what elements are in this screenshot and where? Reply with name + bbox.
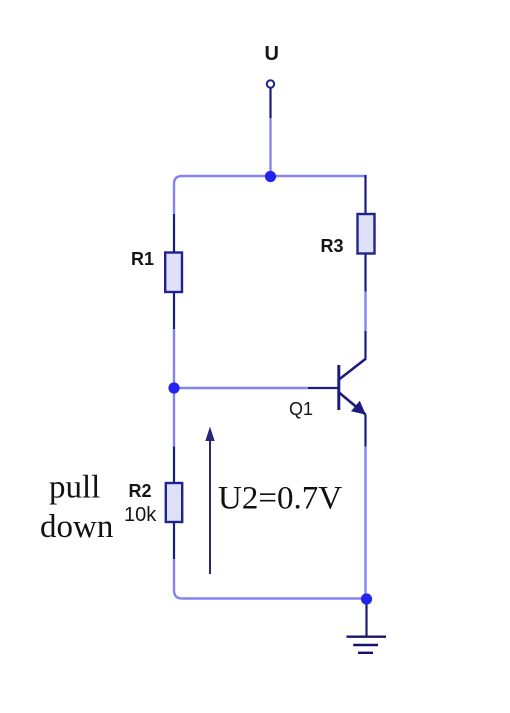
svg-text:down: down [40, 509, 113, 545]
svg-text:U: U [265, 43, 279, 65]
svg-text:U2=0.7V: U2=0.7V [218, 481, 342, 517]
svg-text:10k: 10k [124, 504, 157, 526]
svg-text:Q1: Q1 [289, 399, 313, 419]
svg-text:R3: R3 [321, 236, 344, 256]
svg-text:R2: R2 [129, 481, 152, 501]
svg-text:pull: pull [49, 470, 100, 506]
svg-text:R1: R1 [131, 249, 154, 269]
